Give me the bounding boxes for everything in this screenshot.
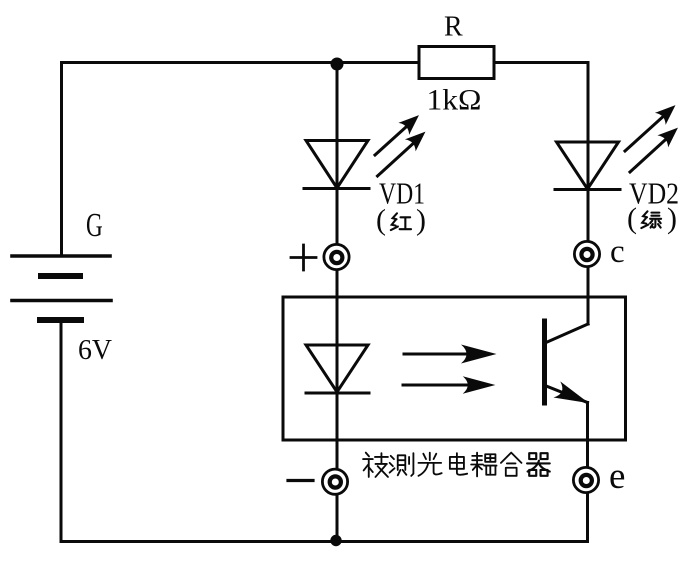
optocoupler box outline bbox=[283, 297, 626, 440]
svg-text:c: c bbox=[610, 234, 625, 270]
char ou bbox=[471, 453, 496, 477]
battery G plate short thick bottom bbox=[40, 317, 81, 323]
svg-text:e: e bbox=[609, 456, 625, 497]
resistor R body bbox=[419, 47, 494, 79]
char he bbox=[501, 453, 522, 476]
char qi bbox=[527, 453, 550, 476]
battery G plate short thick upper bbox=[41, 273, 80, 279]
char lv (green) bbox=[641, 211, 661, 228]
LED VD1 ray arrow 2 bbox=[378, 126, 431, 176]
svg-text:G: G bbox=[86, 207, 103, 244]
terminal c double circle bbox=[574, 241, 599, 266]
wire VD1 column vertical bbox=[336, 63, 339, 542]
svg-text:): ) bbox=[416, 204, 426, 237]
svg-text:R: R bbox=[444, 12, 463, 43]
opto light arrow 2 bbox=[403, 376, 495, 393]
opto internal LED triangle bbox=[306, 345, 368, 392]
char hong (red) bbox=[391, 213, 411, 230]
char ce bbox=[390, 453, 414, 476]
terminal - (cathode) double circle bbox=[322, 469, 347, 494]
terminal e double circle bbox=[573, 467, 598, 492]
wire VD2 column upper vertical bbox=[587, 63, 590, 325]
wire bottom horizontal rail bbox=[61, 540, 587, 543]
LED VD1 cathode bar bbox=[304, 187, 369, 190]
LED VD2 ray arrow 2 bbox=[630, 122, 683, 172]
phototransistor collector lead bbox=[546, 324, 588, 343]
char guang bbox=[418, 453, 441, 476]
wire VD2 column lower vertical bbox=[586, 403, 589, 542]
battery G plate long top bbox=[12, 254, 110, 258]
opto internal LED cathode bar bbox=[306, 392, 369, 395]
char bei bbox=[363, 453, 388, 477]
battery G plate long lower bbox=[12, 299, 111, 303]
plus sign bbox=[291, 245, 316, 270]
terminal + (anode) double circle bbox=[324, 244, 349, 269]
svg-text:6V: 6V bbox=[78, 334, 112, 366]
LED VD1 triangle bbox=[306, 141, 368, 189]
LED VD2 triangle bbox=[557, 142, 619, 189]
wire battery bottom to bottom rail bbox=[60, 320, 63, 542]
LED VD1 ray arrow 1 bbox=[375, 109, 424, 155]
svg-text:1kΩ: 1kΩ bbox=[427, 84, 482, 117]
wire top horizontal bbox=[62, 61, 589, 64]
LED VD2 cathode bar bbox=[555, 188, 620, 191]
char dian bbox=[450, 453, 467, 475]
opto light arrow 1 bbox=[404, 345, 497, 364]
wire left vertical to battery bbox=[60, 63, 63, 257]
phototransistor emitter arrow bbox=[553, 381, 592, 411]
phototransistor emitter lead bbox=[545, 386, 588, 403]
label: bei ce guang dian ou he qi (optocoupler under test) bbox=[363, 453, 550, 477]
node junction dot bottom bbox=[330, 535, 341, 546]
svg-text:(: ( bbox=[376, 204, 386, 237]
svg-text:(: ( bbox=[627, 202, 637, 235]
phototransistor base bar bbox=[542, 321, 547, 403]
svg-text:): ) bbox=[667, 202, 677, 235]
node junction dot top bbox=[331, 58, 344, 71]
minus sign bbox=[288, 479, 313, 482]
LED VD2 ray arrow 1 bbox=[625, 99, 681, 151]
